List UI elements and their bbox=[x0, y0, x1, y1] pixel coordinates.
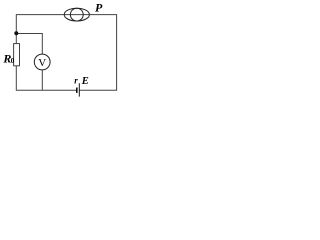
svg-text:V: V bbox=[38, 57, 46, 69]
wire outer loop (left, top, right, bottom with battery gap) bbox=[16, 15, 116, 91]
wire voltmeter branch bbox=[16, 34, 42, 91]
svg-text:E: E bbox=[81, 76, 89, 87]
label E bbox=[81, 76, 89, 87]
lamp P (ellipse with inner circle) bbox=[64, 8, 89, 21]
node junction dot bbox=[14, 31, 18, 35]
svg-text:0: 0 bbox=[11, 57, 15, 65]
label R0 bbox=[2, 52, 14, 66]
label P bbox=[95, 0, 103, 14]
svg-text:P: P bbox=[95, 0, 103, 14]
resistor R0 (box) bbox=[14, 44, 20, 66]
battery cell: short negative plate bbox=[76, 88, 78, 93]
voltmeter V bbox=[34, 54, 50, 70]
label r bbox=[74, 75, 78, 85]
svg-text:r: r bbox=[74, 75, 78, 85]
battery cell: long positive plate bbox=[78, 83, 80, 96]
